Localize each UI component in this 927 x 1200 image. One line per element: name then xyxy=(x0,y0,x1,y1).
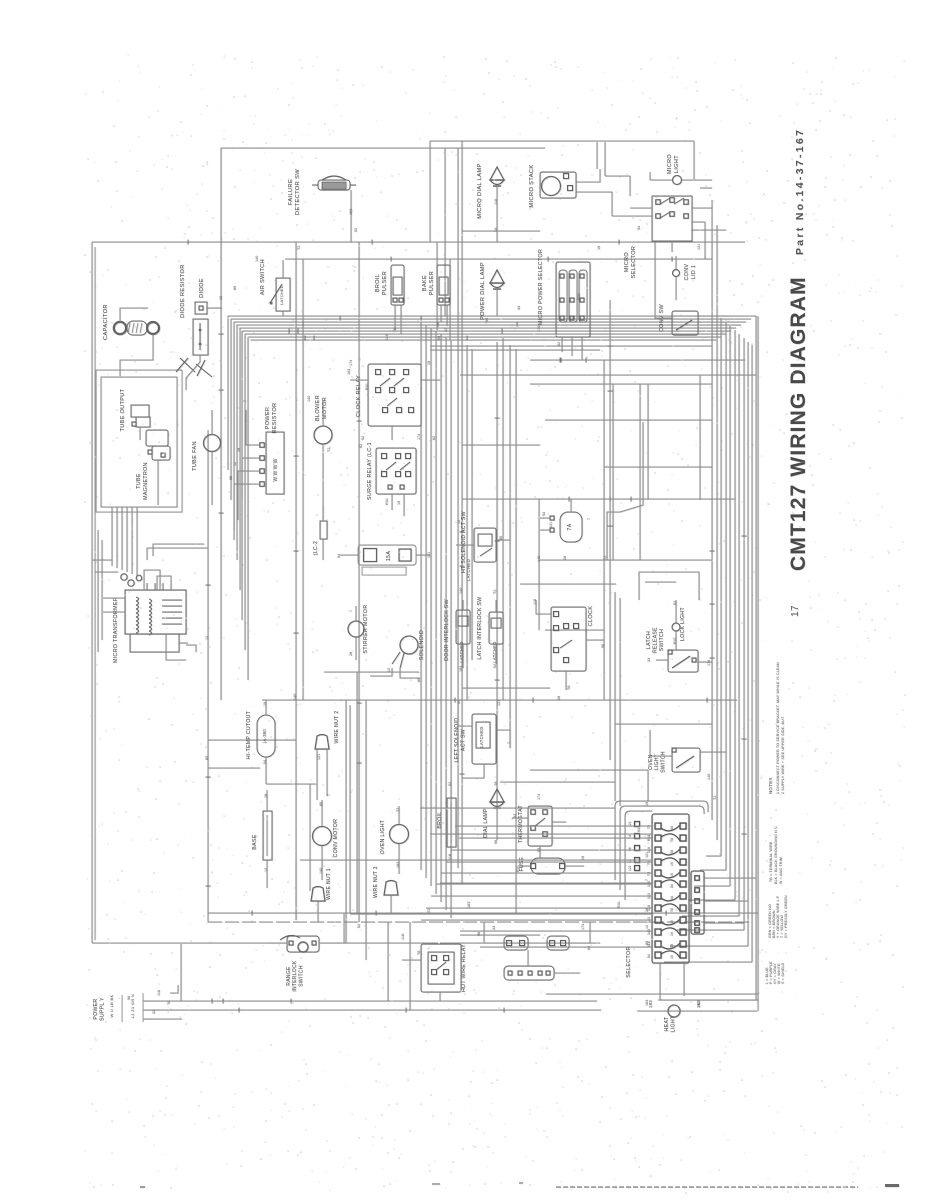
wire xyxy=(208,921,752,923)
wire xyxy=(462,444,540,446)
tube section rect xyxy=(101,377,177,507)
wire xyxy=(700,187,712,189)
wire xyxy=(120,308,148,322)
wire xyxy=(471,349,473,660)
wire xyxy=(546,993,758,995)
selector surround rounded rects xyxy=(615,801,708,880)
wire xyxy=(358,242,360,922)
wire xyxy=(446,305,448,326)
hot wire relay coil xyxy=(504,966,554,980)
wire xyxy=(649,172,651,180)
wire xyxy=(458,700,472,726)
wire xyxy=(321,800,323,826)
wire xyxy=(515,349,517,913)
wire xyxy=(603,360,605,700)
wire xyxy=(242,458,259,500)
wire xyxy=(757,316,759,1011)
wire xyxy=(238,471,259,520)
wire xyxy=(430,349,600,351)
wire xyxy=(317,901,319,922)
wire xyxy=(512,817,528,819)
wire xyxy=(440,305,442,322)
wire micro stack link xyxy=(462,230,540,232)
resistor box xyxy=(193,319,208,355)
wire xyxy=(502,338,504,700)
wire xyxy=(450,780,452,798)
wire xyxy=(139,427,141,440)
wire xyxy=(607,422,643,560)
wire xyxy=(421,379,440,381)
wire right vertical bundle xyxy=(711,200,713,820)
wire tick marks xyxy=(188,240,747,1013)
wire xyxy=(439,992,441,1001)
wire xyxy=(394,305,396,330)
wire xyxy=(356,672,358,913)
transformer core hatch xyxy=(162,599,182,601)
wire xyxy=(571,337,573,356)
wire xyxy=(92,942,284,944)
wire xyxy=(699,375,701,500)
wire xyxy=(400,305,402,334)
wire xyxy=(576,169,600,182)
wire xyxy=(461,141,463,884)
selector feed wires xyxy=(420,807,615,809)
wire xyxy=(262,699,737,701)
wire xyxy=(466,345,468,700)
wire xyxy=(683,963,685,996)
power supply wires xyxy=(143,1000,597,1002)
wire xyxy=(698,661,712,663)
wire xyxy=(322,539,324,560)
wire xyxy=(675,600,677,623)
wire xyxy=(647,770,649,801)
wire xyxy=(700,751,726,753)
wire xyxy=(581,337,583,360)
wire xyxy=(500,781,615,783)
wire xyxy=(671,241,673,252)
wire xyxy=(539,846,541,858)
micro power selector xyxy=(556,262,590,337)
wire xyxy=(569,942,590,944)
bottom scan line xyxy=(556,1186,858,1188)
wire xyxy=(554,972,580,974)
wire xyxy=(355,606,357,621)
wire xyxy=(654,242,656,300)
tube section rect outer xyxy=(96,370,182,512)
wire xyxy=(655,300,672,318)
wire xyxy=(95,571,118,573)
wire xyxy=(449,259,451,340)
wire xyxy=(656,659,668,661)
wire central vertical bundle xyxy=(420,322,422,870)
wire xyxy=(221,147,545,149)
wire xyxy=(429,141,431,242)
wire xyxy=(103,597,125,599)
wire xyxy=(604,466,712,468)
wire xyxy=(430,345,712,347)
micro transformer terminals xyxy=(121,574,127,580)
wire xyxy=(519,865,531,867)
wire xyxy=(675,631,677,650)
wire xyxy=(166,634,186,660)
wire xyxy=(692,207,712,209)
wire xyxy=(530,383,712,385)
wire xyxy=(206,307,222,309)
wire xyxy=(639,572,699,600)
wire xyxy=(246,410,259,445)
wire xyxy=(370,668,392,676)
fuse 7A xyxy=(560,512,582,542)
wire xyxy=(756,999,758,1001)
wire xyxy=(527,950,529,966)
hot wire relay contacts xyxy=(504,936,528,950)
wire xyxy=(530,359,745,361)
wire xyxy=(545,419,712,421)
wire xyxy=(309,784,311,891)
wire xyxy=(103,611,125,613)
wire xyxy=(660,999,757,1001)
wire xyxy=(496,342,498,810)
wire xyxy=(282,260,284,278)
wire xyxy=(343,913,345,943)
wire xyxy=(340,554,358,556)
selector strip xyxy=(652,814,689,963)
wire xyxy=(170,985,178,993)
wire xyxy=(570,499,572,512)
wire xyxy=(416,554,430,556)
wire xyxy=(704,222,706,259)
wire xyxy=(612,384,614,560)
wire xyxy=(362,567,406,575)
wire xyxy=(540,559,712,561)
wire xyxy=(207,430,209,922)
wire xyxy=(704,877,756,879)
wire xyxy=(270,942,287,944)
wire xyxy=(675,277,677,300)
wire xyxy=(402,959,421,961)
latch release switch body xyxy=(668,650,698,672)
wire xyxy=(349,705,351,913)
wire xyxy=(324,671,419,673)
wire heat light xyxy=(637,1010,757,1012)
wire xyxy=(444,148,446,316)
wire xyxy=(561,337,563,352)
wire xyxy=(403,494,405,516)
wire xyxy=(630,207,652,209)
wire xyxy=(496,730,510,748)
wire xyxy=(350,379,368,381)
wire xyxy=(409,922,411,1010)
wire xyxy=(266,790,268,811)
wire xyxy=(693,141,695,179)
wire xyxy=(345,700,347,943)
wire xyxy=(536,600,551,614)
wire xyxy=(436,242,438,330)
wire xyxy=(265,700,267,715)
wire xyxy=(319,942,340,944)
wire magnetron leads xyxy=(111,507,113,566)
wire xyxy=(552,821,566,823)
wire xyxy=(266,783,316,785)
wire xyxy=(538,499,540,630)
wire xyxy=(295,860,297,920)
wire xyxy=(659,963,661,1000)
wire xyxy=(605,176,630,196)
wire xyxy=(265,757,267,784)
wire xyxy=(462,644,464,668)
wire xyxy=(565,671,567,690)
wire xyxy=(462,687,550,689)
wire xyxy=(460,934,540,936)
wire xyxy=(698,315,730,317)
wire xyxy=(576,192,612,216)
wire xyxy=(682,179,712,181)
wire xyxy=(91,242,93,943)
wire xyxy=(565,865,584,867)
wire xyxy=(322,942,438,944)
wire right bundle elbows xyxy=(706,855,721,857)
wire xyxy=(387,922,389,1001)
wire xyxy=(692,221,705,223)
wire xyxy=(540,517,550,519)
wire xyxy=(609,300,611,760)
wire xyxy=(496,809,498,840)
wire xyxy=(614,592,616,801)
wire xyxy=(211,452,213,505)
wire xyxy=(400,668,420,678)
wire xyxy=(615,723,712,725)
wire xyxy=(675,256,677,269)
wire xyxy=(322,444,324,520)
wire xyxy=(326,749,328,796)
micro transformer xyxy=(125,590,186,634)
wire xyxy=(302,259,304,700)
diode D1 box xyxy=(195,302,207,314)
wire xyxy=(704,922,744,924)
wire xyxy=(120,334,153,376)
wire xyxy=(365,700,367,960)
wire xyxy=(650,179,672,181)
wire xyxy=(495,644,497,664)
wire xyxy=(220,148,222,700)
wire xyxy=(153,544,204,556)
wire bus left verticals xyxy=(227,316,229,470)
selector left terminals xyxy=(635,822,640,827)
wire xyxy=(180,944,182,1001)
wire xyxy=(650,730,672,756)
wire xyxy=(520,583,616,585)
wire left border inner xyxy=(94,247,96,940)
transistor symbols xyxy=(176,358,212,377)
wire xyxy=(350,190,352,242)
wire xyxy=(647,384,649,499)
wire xyxy=(457,148,459,868)
wire xyxy=(460,374,756,376)
wire xyxy=(285,258,712,260)
wire xyxy=(355,637,357,660)
wire xyxy=(101,540,103,640)
failure detector switch DOOR OPEN xyxy=(318,180,350,190)
micro selector relay xyxy=(652,196,692,241)
wire xyxy=(92,559,112,561)
wire bus horizontal bundle xyxy=(228,315,756,317)
wire xyxy=(450,847,452,870)
wire xyxy=(147,548,208,560)
wire xyxy=(390,895,392,913)
wire xyxy=(157,576,171,590)
wire xyxy=(157,460,159,505)
wire xyxy=(496,290,498,316)
wire xyxy=(604,142,606,176)
wire xyxy=(462,600,464,610)
wire xyxy=(495,600,497,612)
wire xyxy=(316,749,318,800)
wire xyxy=(391,494,393,510)
main enclosure rect xyxy=(92,241,745,243)
outer border wire top xyxy=(430,140,694,142)
wire xyxy=(462,764,484,778)
wire xyxy=(391,426,393,440)
wire number labels xyxy=(127,199,717,1014)
wire xyxy=(462,498,735,500)
wire xyxy=(496,187,498,242)
wire xyxy=(596,142,598,169)
wire xyxy=(540,529,550,531)
wire xyxy=(208,767,260,769)
wire xyxy=(692,229,726,231)
fuse 15A xyxy=(358,545,416,565)
wire xyxy=(398,844,400,874)
wire xyxy=(144,570,160,590)
wire xyxy=(295,242,297,920)
wire xyxy=(186,355,200,390)
wire xyxy=(179,642,188,644)
wire xyxy=(211,410,213,435)
wire xyxy=(619,598,621,806)
wire xyxy=(208,912,758,914)
wire xyxy=(589,922,591,943)
wire xyxy=(639,384,641,560)
wire xyxy=(322,400,324,426)
wire xyxy=(321,846,323,880)
wire xyxy=(398,806,400,824)
wire selector elbows xyxy=(421,919,652,921)
wire xyxy=(456,544,474,546)
selector right strip xyxy=(691,871,704,934)
wire xyxy=(234,484,259,540)
wire xyxy=(322,505,324,521)
wire xyxy=(97,530,99,652)
notes text xyxy=(765,662,788,984)
wire xyxy=(645,581,676,583)
wire xyxy=(266,860,268,888)
wire xyxy=(483,922,485,943)
wire xyxy=(484,942,504,944)
transformer top stubs xyxy=(146,583,148,590)
wire xyxy=(509,345,511,748)
wire xyxy=(612,215,652,217)
wire xyxy=(704,900,748,902)
wire xyxy=(586,639,604,641)
wire xyxy=(545,629,604,631)
wire xyxy=(440,942,600,944)
wire xyxy=(186,645,196,652)
wire xyxy=(530,769,648,771)
wire xyxy=(282,311,284,316)
wire xyxy=(496,520,510,540)
wire xyxy=(208,739,296,741)
